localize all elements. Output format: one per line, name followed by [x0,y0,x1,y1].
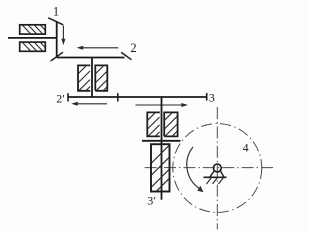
svg-text:3′: 3′ [147,194,156,208]
svg-text:3: 3 [209,91,215,105]
mid tick [117,93,119,101]
shaft I (input shaft) [8,37,57,39]
gear on shaft III right half [164,112,177,136]
bearing lower hatching [23,43,45,51]
arrow right below shaft [136,104,184,106]
mesh corner tick (gears 1x2) [51,52,63,61]
wheel 4 vertical centerline [216,107,218,229]
gear 1 top tick [48,18,63,25]
wheel 4 horizontal centerline [145,167,274,169]
svg-text:1: 1 [53,5,59,19]
shaft III (vertical, through gears to pinion) [161,97,163,200]
bevel gear 2 (horizontal pitch line) [57,57,125,59]
gear 2 right end tick [121,52,131,59]
arrow left above gear 2 [82,47,119,49]
pivot legs [210,171,215,178]
pitch line under gear III [142,140,181,142]
svg-text:4: 4 [243,141,249,155]
arrow left below shaft [76,103,107,105]
right end tick at 3 [206,93,208,101]
arrow down beside gear 1 [62,26,64,41]
shaft II (vertical) [91,58,93,98]
svg-text:2: 2 [130,41,136,55]
gear on shaft II right half [95,65,107,90]
pivot bearing at wheel center [213,164,221,172]
pinion 3' [151,144,170,191]
rotation direction arrow inside wheel 4 [187,147,200,189]
bearing block lower [20,42,46,51]
pivot ground hatching [207,178,224,185]
bevel gear 1 (vertical pitch line) [56,21,58,57]
gear on shaft III left half [147,112,160,136]
svg-text:2′: 2′ [56,92,65,106]
wheel 4 pitch circle (dash-dot) [173,124,262,213]
gear on shaft II left half [78,65,90,90]
bearing upper hatching [23,25,45,34]
shaft 2'-3 (horizontal) [68,96,207,98]
left end tick at 2' [67,93,69,101]
bearing block upper (frame support on shaft I) [20,25,46,34]
pivot base line [204,176,227,178]
pinion 3' hatching [152,146,170,192]
